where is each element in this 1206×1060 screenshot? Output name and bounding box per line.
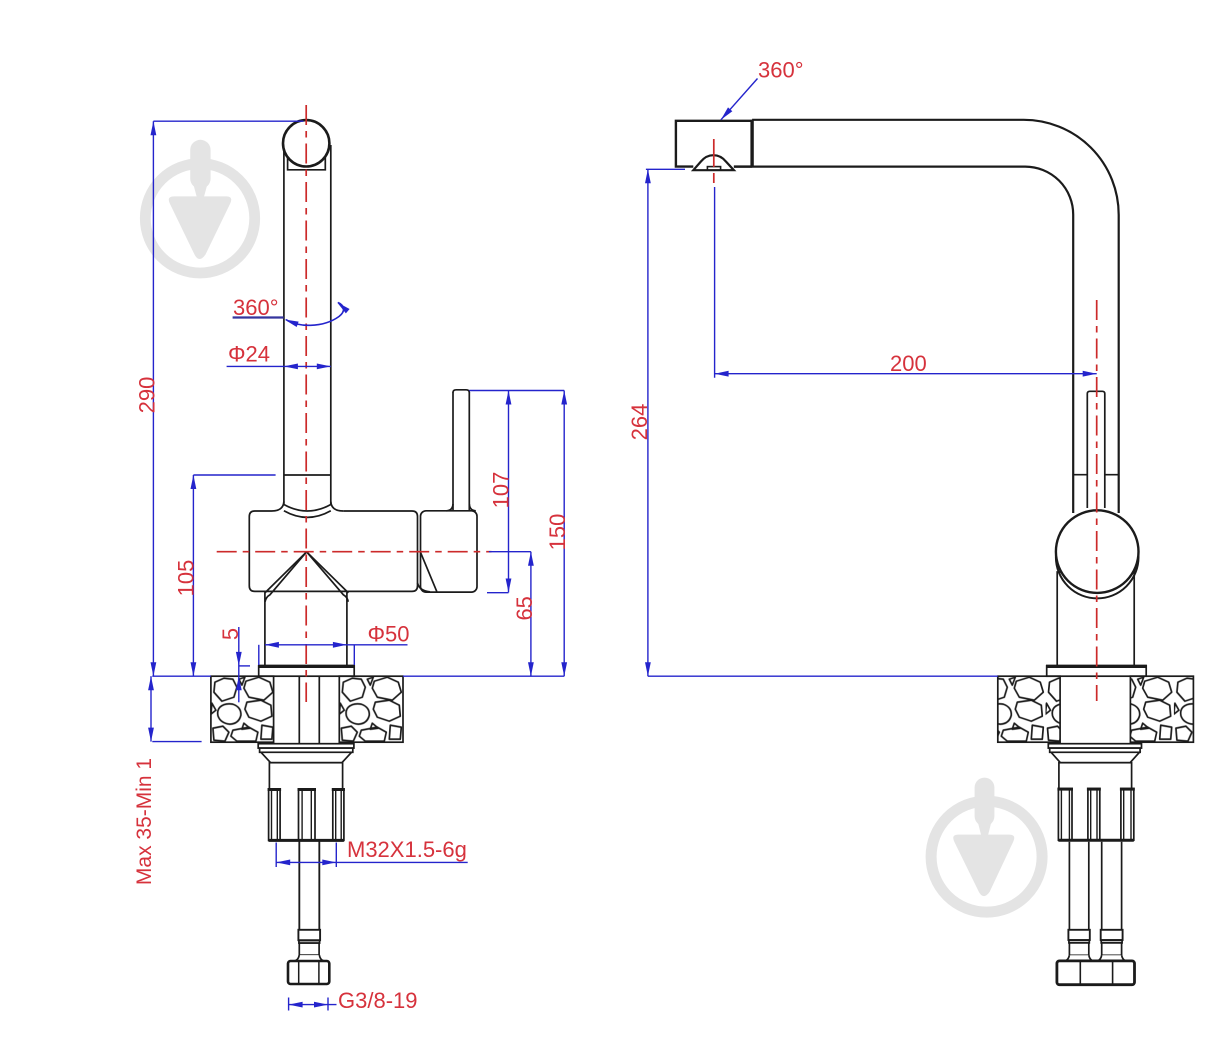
knurl tab right: [333, 789, 344, 840]
hose collar line: [299, 941, 320, 944]
spout head box: [676, 121, 752, 167]
svg-text:200: 200: [890, 351, 927, 376]
svg-text:105: 105: [173, 560, 198, 597]
dim 65 line: [530, 552, 532, 677]
dim 107 bottom tick: [487, 592, 509, 594]
spout outlet circle: [283, 120, 329, 166]
handle knob circle: [1056, 510, 1139, 593]
arrow 105 bottom: [191, 662, 197, 676]
hose nuts facet lines: [1080, 961, 1112, 985]
mounting nut body: [269, 763, 342, 841]
mounting nut body side: [1059, 763, 1132, 841]
arrow 5 down: [236, 652, 242, 666]
arrow phi50 right: [333, 642, 347, 648]
lever rod flare left: [447, 504, 454, 511]
aerator housing bracket: [288, 154, 326, 170]
rotation 360 underline left: [233, 316, 284, 318]
hose nut facet lines: [299, 961, 319, 984]
aerator dome: [693, 155, 734, 170]
arrow swirl left: [284, 317, 299, 327]
hose 2 end tube: [1102, 943, 1122, 955]
arrow 150 bottom: [561, 662, 567, 676]
dim phi50 line: [265, 644, 347, 646]
lever rod (edge-on): [1087, 391, 1105, 508]
arrow 107 top: [506, 391, 512, 405]
spout head divider (thick): [750, 120, 753, 167]
knurl tab middle side top edge: [1087, 788, 1101, 791]
dim 264 line: [647, 169, 649, 676]
dim 290 line: [152, 121, 154, 676]
dim M32 ext left: [275, 843, 277, 868]
flange band side: [1050, 748, 1140, 752]
dim 150 line: [563, 391, 565, 677]
svg-text:Φ24: Φ24: [228, 342, 270, 367]
hose 1 flare: [1065, 955, 1094, 961]
arrow 200 left: [715, 371, 729, 377]
arrow 5 up: [236, 676, 242, 690]
knurl tab left side top edge: [1057, 788, 1073, 791]
centerline left view vertical: [305, 105, 307, 702]
hose 2 collar line: [1101, 940, 1122, 943]
neck left edge: [264, 592, 266, 666]
handle joint arc: [418, 583, 431, 592]
svg-text:360°: 360°: [233, 295, 279, 320]
supply hose left edge: [298, 842, 300, 930]
svg-text:G3/8-19: G3/8-19: [338, 988, 418, 1013]
svg-text:Φ50: Φ50: [368, 622, 410, 647]
shank tube right line: [318, 676, 320, 930]
pipe-to-body fillet left: [272, 502, 284, 512]
handle sleeve: [421, 511, 478, 592]
svg-text:107: 107: [488, 472, 513, 509]
knurl tab right side top edge: [1120, 788, 1135, 791]
lever rod flare right: [469, 504, 476, 511]
knurl tab left: [269, 789, 281, 840]
centerline left view horizontal: [217, 551, 492, 553]
dim 105 extension top: [193, 474, 275, 476]
centerline right view down pipe: [1096, 300, 1098, 701]
hose nuts pair: [1057, 961, 1135, 985]
base plate: [259, 666, 355, 676]
hose 1 collar line: [1069, 940, 1089, 943]
svg-text:264: 264: [627, 404, 652, 441]
svg-text:150: 150: [545, 514, 570, 551]
dim phi50 ext left: [258, 645, 260, 665]
knurl tab left side: [1058, 789, 1072, 841]
lever rod top cap: [453, 390, 469, 393]
down pipe collar line (broken by lever): [1073, 474, 1119, 476]
mounting flange plate: [258, 744, 354, 748]
watermark logo bottom-right: [931, 778, 1042, 913]
spout arm outer contour: [752, 120, 1119, 513]
dim 107 line: [508, 391, 510, 593]
knurl tab left inner lines: [272, 789, 278, 840]
knurl tab right top edge: [332, 788, 345, 791]
centerline right view aerator: [713, 139, 715, 187]
dim Max35 line: [150, 676, 152, 741]
supply hose 2: [1102, 842, 1122, 930]
hose 1 end tube: [1069, 943, 1088, 955]
arrow 150 top: [561, 391, 567, 405]
hose collar band: [298, 930, 320, 940]
arrow G38 right: [314, 1002, 328, 1008]
dim G38 ext right: [327, 998, 329, 1011]
pipe-to-body fillet right: [331, 502, 343, 512]
dim ref line countertop mid: [403, 675, 564, 677]
arrow 105 top: [191, 475, 197, 489]
supply hose right edge: [318, 842, 320, 930]
dim 290 extension top: [153, 120, 303, 122]
arrow M32 left: [276, 860, 290, 866]
leader 360 right view: [721, 79, 758, 120]
knurl tab right side: [1121, 789, 1134, 841]
arrow Max35 bottom: [148, 728, 154, 742]
hose 2 collar: [1101, 930, 1123, 940]
arrow 65 bottom: [528, 662, 534, 676]
arrow Max35 top: [148, 676, 154, 690]
hose end tube: [299, 943, 319, 955]
knurl tab right inner lines: [336, 789, 342, 840]
watermark logo top-left: [145, 140, 254, 273]
countertop hatch cell right: [1130, 676, 1193, 742]
handle knob back circle: [1056, 516, 1139, 599]
dim M32 ext right: [335, 843, 337, 868]
arrow 107 bottom: [506, 579, 512, 593]
body cone line left outer: [265, 552, 307, 593]
flange plate side: [1048, 744, 1141, 748]
dim phi50 ext right: [353, 645, 355, 665]
pipe collar line: [284, 474, 331, 476]
lever rod left edge: [452, 392, 454, 510]
shoulder arc upper: [284, 505, 331, 512]
arrow M32 right: [322, 860, 336, 866]
knurl tab middle inner lines: [302, 789, 311, 840]
knurl tab middle side: [1088, 789, 1100, 841]
body cone line right outer: [307, 552, 349, 593]
countertop hatch right cell: [339, 676, 403, 742]
knurl tab middle top edge: [298, 788, 317, 791]
mounting flange band: [260, 748, 353, 752]
dim phi24 leader: [227, 365, 284, 367]
supply hose 1: [1069, 842, 1088, 930]
body cone line right inner: [307, 552, 349, 602]
spout arm inner contour: [734, 167, 1073, 513]
svg-text:360°: 360°: [758, 58, 804, 83]
arrow phi50 left: [265, 642, 279, 648]
handle joint diagonal: [421, 552, 437, 591]
arrow phi24 left: [284, 364, 298, 370]
knurl tab right side inner lines: [1124, 789, 1131, 841]
arrow G38 left: [289, 1002, 303, 1008]
arrow 290 top: [151, 121, 157, 135]
shoulder arc lower: [284, 511, 331, 518]
dim Max35 bottom tick: [152, 741, 201, 743]
dim phi24 line: [284, 365, 331, 367]
arrow phi24 right: [317, 364, 331, 370]
base plate side: [1047, 666, 1147, 676]
arrow 65 top: [528, 552, 534, 566]
knurl tab left top edge: [268, 788, 282, 791]
body column: [1057, 572, 1134, 666]
svg-text:65: 65: [512, 596, 537, 620]
knurl tab middle side inner lines: [1091, 789, 1097, 841]
flange trapezoid side: [1051, 752, 1139, 762]
dim 65 top tick: [489, 551, 531, 553]
faucet body: [249, 511, 417, 591]
neck right edge: [346, 592, 348, 666]
dim phi50 leader: [347, 644, 408, 646]
lever rod right edge: [468, 392, 470, 510]
shank tube left line: [298, 676, 300, 930]
rotation swirl arc: [286, 303, 344, 326]
dim 5 tick: [239, 665, 250, 667]
dim G38 ext left: [288, 998, 290, 1011]
aerator inner rect: [707, 167, 720, 171]
mounting flange trapezoid: [261, 752, 352, 762]
dim 264 ext top: [646, 168, 685, 170]
arrow 264 bottom: [645, 662, 651, 676]
shared extension lever top: [469, 390, 564, 392]
dim 105 line: [192, 475, 194, 676]
body cone line left inner: [265, 552, 307, 602]
knurl bottom thick edge: [269, 839, 344, 842]
arrow 360 leader right view: [719, 107, 733, 121]
dim G38 line: [289, 1004, 337, 1006]
dim ref line countertop right view: [648, 675, 998, 677]
svg-text:5: 5: [218, 628, 243, 640]
spout pipe (front view): [283, 147, 285, 504]
dim 5 line: [238, 627, 240, 702]
base plate side thick top edge: [1046, 665, 1147, 668]
svg-text:290: 290: [134, 377, 159, 414]
knurl bottom thick edge side: [1058, 839, 1133, 842]
hose 2 flare: [1097, 955, 1126, 961]
dim M32 line: [276, 861, 468, 863]
svg-text:Max 35-Min 1: Max 35-Min 1: [133, 758, 156, 885]
knurl tab left side inner lines: [1061, 789, 1069, 841]
dim 200 line: [715, 373, 1097, 375]
countertop hatch left cell: [211, 676, 274, 742]
hose nut G3/8: [288, 961, 329, 984]
hose end flare: [295, 955, 324, 961]
dim ref line countertop left: [152, 675, 211, 677]
knurl tab middle: [299, 789, 316, 840]
arrow 264 top: [645, 169, 651, 183]
countertop hatch cell left: [998, 676, 1060, 742]
svg-text:M32X1.5-6g: M32X1.5-6g: [347, 837, 467, 862]
arrow swirl top: [335, 300, 349, 313]
dim 200 ext left: [714, 187, 716, 378]
arrow 200 right: [1083, 371, 1097, 377]
arrow 290 bottom: [151, 662, 157, 676]
base plate thick top edge: [258, 665, 355, 668]
hose 1 collar: [1068, 930, 1089, 940]
